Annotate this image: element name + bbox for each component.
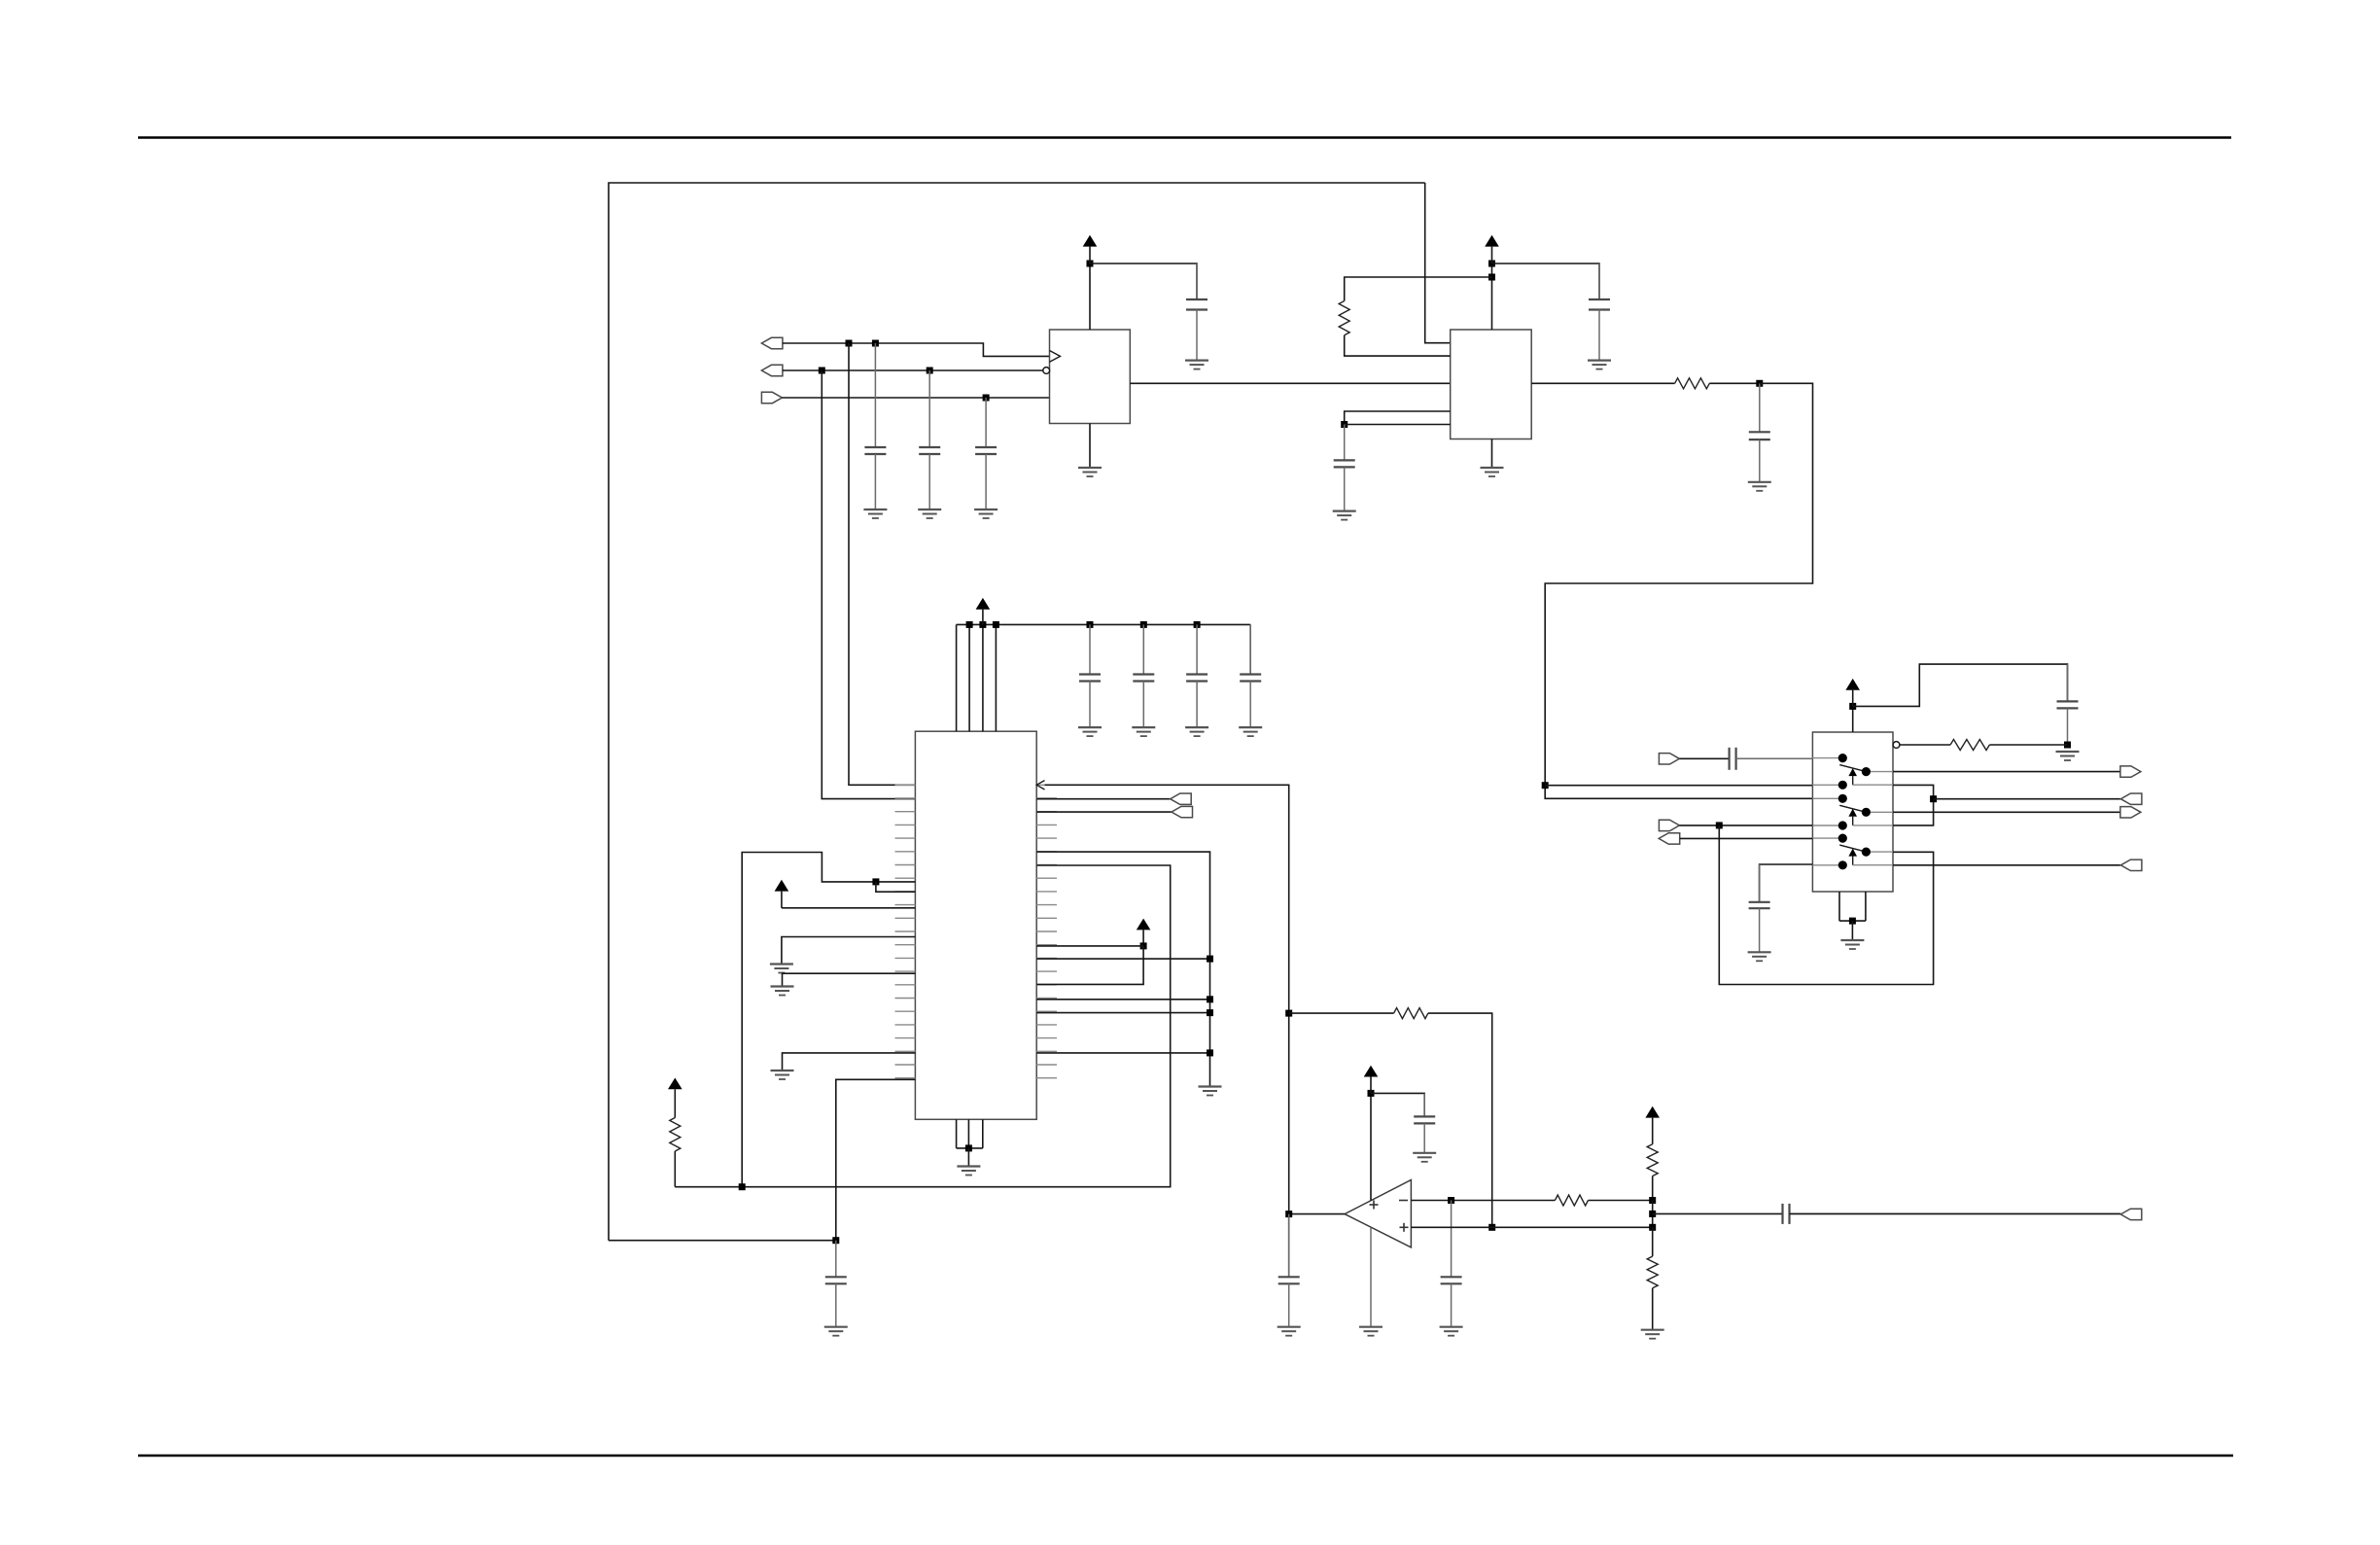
U4 switch 3 pole contact [1838, 834, 1847, 843]
wire net2 drop to U3 pin1 [822, 370, 915, 799]
capacitor C14 [1414, 1093, 1435, 1152]
U4 switch 1 throw contact [1862, 767, 1871, 776]
U4 enable circle [1893, 742, 1900, 749]
wire U2 lower-left pin5 [1345, 424, 1451, 426]
connector P6 (out, left) [1659, 833, 1680, 844]
connector P5 (in) [1659, 820, 1679, 830]
wire pin13R [1036, 958, 1209, 960]
node bus-a [966, 621, 973, 628]
node busR-d [1207, 1049, 1213, 1056]
wire pin16R [1036, 999, 1209, 1001]
wire U1 VCC stem [1089, 263, 1091, 330]
capacitor C16 [1133, 624, 1154, 727]
wire left loop to pins 7/8 [742, 853, 915, 1187]
wire C13 to P13 [1790, 1212, 2121, 1214]
power VCC1 [1083, 235, 1098, 263]
wire pin12R [1036, 945, 1143, 947]
U4 switch 1 pole contact [1838, 754, 1847, 762]
U3 right pin stubs [1036, 785, 1057, 1077]
wire VCC bus [957, 623, 1251, 625]
wire R9 to node [1989, 744, 2067, 746]
ground U2 [1481, 468, 1504, 476]
U4 switch 3 lever [1839, 845, 1866, 852]
ground pin14 [771, 987, 794, 996]
node net2-a [819, 368, 825, 374]
connector P7 (out) [2120, 766, 2141, 777]
capacitor C11 [1278, 1214, 1300, 1327]
wire outer loop bottom to node C19 [609, 1240, 836, 1242]
wire pin17R [1036, 1012, 1209, 1014]
wire U1 output to U2 [1130, 382, 1450, 384]
wire pin20R [1036, 1052, 1209, 1054]
U4 switch 2 throw line [1871, 811, 1893, 813]
wire U4 ctl1 loop [1893, 785, 1934, 825]
wire ctl to P8 [1934, 798, 2121, 800]
wire net1 drop to U3 pin0 [849, 343, 915, 785]
wire pin14 to gnd [783, 973, 916, 986]
U4 switch 2 nc contact [1838, 821, 1847, 829]
node bus-b [979, 621, 986, 628]
U4 switch 1 throw line [1871, 771, 1893, 773]
wire divider to R7 [1652, 1227, 1654, 1256]
bottom border rule [138, 1455, 2233, 1457]
U4 switch 2 pole contact [1838, 794, 1847, 803]
ground C10 [1748, 952, 1771, 961]
ground R7 [1641, 1330, 1664, 1339]
ground C3 [974, 509, 997, 518]
resistor R3 [1675, 378, 1710, 389]
node feedback out [1285, 1211, 1292, 1217]
connector P2 (out, left) [761, 365, 783, 375]
wire C10 pin [1760, 864, 1813, 902]
ground U5 V- [1359, 1327, 1382, 1336]
node net3-a [983, 395, 990, 402]
wire U2 VCC stem [1491, 263, 1493, 330]
wire U3 bottom pins [957, 1119, 983, 1148]
node divider bottom [1649, 1224, 1656, 1231]
top border rule [138, 136, 2231, 139]
wire divider mid [1652, 1201, 1654, 1228]
node U4 vcc junction [1849, 703, 1856, 710]
wire U4 bottom pin a [1838, 892, 1840, 921]
ground U4 [1840, 940, 1864, 949]
connector P4 (in) [1659, 754, 1679, 764]
wire out node to C13 [1653, 1212, 1783, 1214]
ground C14 [1413, 1153, 1436, 1162]
wire pin6R loop to R4 line [675, 865, 1170, 1187]
wire U2 lower-left pin4 [1345, 411, 1451, 425]
ground C17 [1185, 727, 1208, 736]
wire U4 out1 to P7 [1893, 771, 2120, 773]
wire pin20L to gnd [783, 1053, 916, 1071]
U1 clock pin triangle [1050, 351, 1061, 363]
wire U5 V+ stem [1370, 1093, 1372, 1200]
U4 switch 2 lever [1839, 805, 1866, 812]
connector P10 (in, left tip) [2120, 860, 2142, 870]
wire pin22 to C19 node [836, 1079, 916, 1240]
wire U3 top pins to bus [957, 624, 997, 731]
node bus-d [1087, 621, 1094, 628]
wire pin2R to P12 [1036, 811, 1172, 813]
wire net2 from P2 to U1 inverted pin [783, 369, 1043, 371]
wire S-path branch to U4 pin [1545, 785, 1812, 787]
node busR-a [1207, 956, 1213, 963]
U5 minus mark [1399, 1200, 1408, 1202]
wire outer loop top right drop to U2 pin [1425, 183, 1451, 343]
node feedback top [1285, 1010, 1292, 1017]
wire pin11 to gnd [782, 937, 916, 965]
node U2 vcc junction [1488, 261, 1495, 267]
U4 switch 1 nc contact [1838, 781, 1847, 790]
capacitor C17 [1186, 624, 1207, 727]
ground C1 [863, 509, 887, 518]
connector P11 (left tip) [1171, 793, 1192, 804]
node VCC7 junction [1140, 942, 1147, 949]
wire net1 from P1 to U1 clock pin [783, 343, 1050, 356]
ground pin11 [770, 965, 793, 973]
power VCC2 [1485, 235, 1499, 263]
wire U4 out2 to P9 [1893, 811, 2120, 813]
capacitor C6 [1334, 425, 1355, 511]
node bus-e [1140, 621, 1147, 628]
node bus-c [993, 621, 999, 628]
U4 switch 2 nc line [1812, 825, 1838, 826]
wire U1 ground stem [1089, 424, 1091, 469]
U1 inverting pin circle [1043, 368, 1050, 374]
U4 switch 1 control arrow [1848, 768, 1893, 785]
ground right bus [1199, 1087, 1222, 1096]
wire S-path to switch area [1545, 383, 1812, 798]
IC U2 [1451, 330, 1532, 439]
U4 switch 2 control arrow [1848, 809, 1893, 825]
wire R4 bottom [674, 1151, 676, 1187]
wire U5 V- stem [1370, 1227, 1372, 1326]
node U3 gnd join [965, 1144, 972, 1151]
wire pin8 branch [876, 882, 916, 892]
node U2 vcc junction lower [1488, 274, 1495, 281]
capacitor C10 [1749, 864, 1770, 952]
power VCC6 [668, 1078, 682, 1118]
wire VCC1 branch to C4 [1090, 263, 1197, 299]
wire R2 bottom to U2 [1345, 335, 1451, 356]
U4 switch 3 nc line [1812, 864, 1838, 866]
node busR-b [1207, 996, 1213, 1002]
capacitor C18 [1240, 624, 1261, 727]
U4 switch 1 nc line [1812, 784, 1838, 786]
U4 switch 3 pole line [1812, 837, 1838, 839]
U3 pin0 notch [1036, 781, 1044, 790]
wire U3 gnd stem [967, 1148, 969, 1167]
wire U4 VCC stem [1852, 706, 1854, 732]
wire enable to R9 [1900, 744, 1950, 746]
power VCC5 [775, 880, 789, 908]
power VCC4 [976, 598, 991, 625]
ground U1 [1078, 468, 1102, 476]
resistor R7 [1647, 1256, 1658, 1288]
wire U4 bottom join [1839, 920, 1866, 922]
power VCC7 [1137, 919, 1151, 946]
capacitor C12 [1441, 1201, 1462, 1327]
capacitor C2 [919, 370, 940, 509]
wire minus line [1411, 1200, 1555, 1202]
ground C11 [1277, 1327, 1301, 1336]
U4 switch 3 nc contact [1838, 860, 1847, 869]
ground C15 [1078, 727, 1102, 736]
U4 switch 3 control arrow [1848, 849, 1893, 865]
ground C4 [1185, 361, 1208, 369]
ground C7 [1748, 482, 1771, 491]
node plus input join [1488, 1224, 1495, 1231]
node P5 branch [1716, 822, 1723, 828]
IC U3 [915, 731, 1036, 1119]
wire bottom loop P5 to U4 right pin [1719, 825, 1933, 985]
IC U4 analog switch [1812, 732, 1893, 892]
power VCC9 [1364, 1066, 1379, 1094]
wire R7 to gnd [1652, 1288, 1654, 1330]
wire pin1R to P11 [1036, 798, 1171, 800]
wire feedback to R8 [1289, 1012, 1394, 1014]
wire R5 to divider [1589, 1200, 1653, 1202]
wire U2 output [1531, 382, 1674, 384]
node V+ junction [1368, 1090, 1375, 1097]
node bus-f [1194, 621, 1201, 628]
capacitor C3 [975, 398, 997, 509]
capacitor C9 series [1730, 748, 1813, 770]
wire pin0R to feedback column [1045, 785, 1289, 1277]
node C19 junction [832, 1237, 839, 1244]
node ctl join [1930, 795, 1937, 802]
capacitor C5 [1589, 263, 1610, 361]
wire net3 from P3 to U1 [782, 397, 1049, 399]
connector P12 (left tip) [1172, 806, 1193, 817]
U4 switch 1 pole line [1812, 757, 1838, 759]
wire R8 to plus input [1428, 1013, 1492, 1227]
capacitor C13 series [1783, 1204, 2121, 1224]
ground enable node [2056, 752, 2080, 760]
wire VCC3 branch to C8 [1853, 664, 2068, 706]
U4 switch 3 throw line [1871, 851, 1893, 853]
capacitor C4 [1186, 263, 1207, 361]
node R4 line junction [739, 1183, 746, 1190]
wire R3 to node [1709, 382, 1760, 384]
wire U4 out3 to P10 [1893, 864, 2120, 866]
resistor R5 [1555, 1195, 1588, 1206]
power VCC3 [1845, 679, 1860, 707]
wire R2 top feed [1345, 277, 1492, 301]
node net2-b [927, 368, 933, 374]
node C12 tap [1448, 1197, 1454, 1204]
U3 left pin stubs [895, 785, 916, 1077]
connector P8 (in, left tip) [2120, 793, 2142, 804]
ground U3 [957, 1167, 980, 1176]
node busR-c [1207, 1009, 1213, 1016]
connector P13 (left tip) [2120, 1209, 2142, 1219]
ground C16 [1132, 727, 1155, 736]
wire bus end down [1249, 624, 1251, 674]
wire P5 to U4 [1679, 825, 1812, 826]
capacitor C7 [1749, 383, 1770, 482]
node U1 vcc junction [1087, 261, 1094, 267]
ground C19 [824, 1327, 848, 1336]
node R3 out [1756, 380, 1763, 387]
wire U4 bottom pin b [1865, 892, 1867, 921]
node S-path branch [1542, 782, 1549, 789]
capacitor C8 [2057, 664, 2079, 745]
U4 switch 2 throw contact [1862, 808, 1871, 817]
resistor R6 [1647, 1144, 1658, 1176]
wire P4 to C9 [1679, 757, 1729, 759]
node divider cap tap [1649, 1211, 1656, 1217]
resistor R4 [670, 1118, 681, 1152]
power VCC8 [1645, 1106, 1660, 1144]
IC U1 [1050, 330, 1131, 424]
node pin4/pin5 join [1341, 421, 1347, 428]
wire U2 ground stem [1491, 439, 1493, 469]
capacitor C1 [864, 343, 886, 509]
op-amp U5 [1345, 1180, 1411, 1247]
wire U5 output [1289, 1213, 1345, 1215]
node net1-a [846, 340, 853, 347]
wire U4 gnd stem [1851, 921, 1853, 940]
node loop pin join [872, 878, 879, 885]
node U4 gnd join [1849, 918, 1856, 925]
wire VCC9 branch to C14 [1371, 1093, 1424, 1116]
node divider top [1649, 1197, 1656, 1204]
wire VCC2 branch to C5 [1492, 263, 1600, 299]
ground C12 [1440, 1327, 1463, 1336]
resistor R8 [1394, 1008, 1428, 1019]
wire outer loop left vertical and top [609, 183, 1425, 1241]
node net1-b [872, 340, 879, 347]
capacitor C19 [825, 1241, 847, 1327]
connector P3 (in, right-pointing) [761, 392, 782, 403]
wire pin5R to gnd bus [1036, 852, 1209, 1086]
connector P1 (out, left) [761, 337, 783, 348]
U4 switch 1 lever [1839, 765, 1866, 772]
ground C18 [1239, 727, 1262, 736]
resistor R9 [1950, 740, 1989, 751]
U4 switch 2 pole line [1812, 797, 1838, 799]
ground pin20L [771, 1071, 794, 1079]
U5 power plus mark [1370, 1201, 1379, 1210]
U4 switch 3 throw contact [1862, 848, 1871, 857]
wire P6 to U4 [1680, 837, 1813, 839]
wire VCC7 to pin15R [1036, 946, 1143, 985]
node enable junction [2064, 742, 2071, 749]
connector P9 (out) [2120, 807, 2141, 818]
ground C2 [918, 509, 941, 518]
capacitor C15 [1079, 624, 1101, 727]
wire plus line [1411, 1226, 1652, 1228]
U5 plus mark [1400, 1223, 1409, 1232]
resistor R2 [1339, 301, 1349, 335]
wire VCC5 to pin9 [782, 907, 916, 909]
wire R6 to node [1652, 1176, 1654, 1201]
ground C6 [1333, 511, 1356, 520]
ground C5 [1588, 361, 1611, 369]
